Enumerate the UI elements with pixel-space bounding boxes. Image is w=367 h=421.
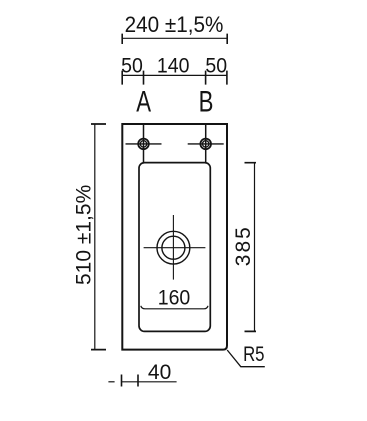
- drain inner circle: [162, 236, 185, 259]
- svg-text:50: 50: [205, 55, 227, 78]
- dimension line 240: [122, 34, 227, 44]
- svg-text:510 ±1,5%: 510 ±1,5%: [73, 185, 96, 285]
- svg-text:R5: R5: [243, 343, 264, 366]
- tap hole B centerlines: [188, 124, 224, 163]
- basin inner outline: [139, 163, 210, 332]
- tap hole B: [200, 139, 211, 150]
- dimension line 40: [108, 375, 176, 387]
- dimension line 160: [141, 306, 208, 309]
- leader line R5: [227, 350, 265, 367]
- svg-text:A: A: [136, 84, 151, 118]
- tap hole A: [138, 139, 149, 150]
- dimension line 385: [245, 163, 257, 332]
- svg-text:140: 140: [157, 55, 190, 78]
- dimension line 50/140/50: [122, 71, 227, 85]
- svg-text:240 ±1,5%: 240 ±1,5%: [125, 12, 224, 37]
- svg-text:B: B: [199, 84, 214, 118]
- outer body outline with R5 corner: [122, 124, 227, 350]
- svg-text:40: 40: [148, 361, 171, 384]
- tap hole A centerlines: [126, 124, 162, 163]
- svg-text:160: 160: [158, 287, 191, 310]
- drain centerlines: [144, 215, 206, 280]
- dimension line 510: [91, 124, 106, 350]
- svg-text:385: 385: [232, 225, 255, 266]
- svg-text:50: 50: [121, 55, 143, 78]
- drain outer circle: [157, 231, 190, 264]
